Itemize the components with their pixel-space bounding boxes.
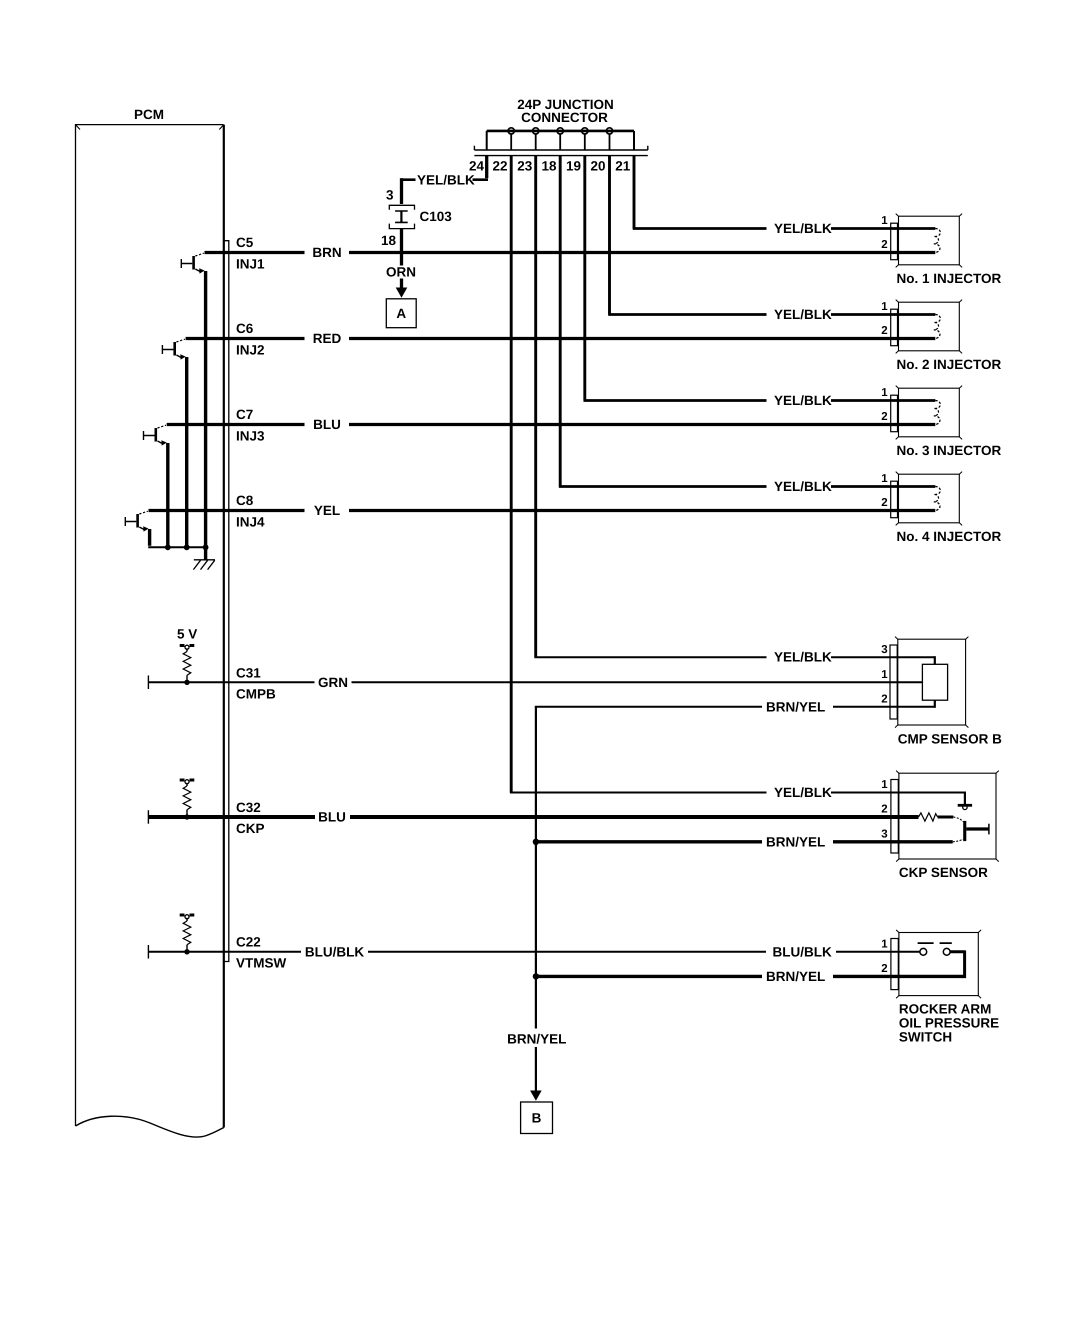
No.4 injector box (896, 472, 962, 526)
svg-text:INJ1: INJ1 (236, 257, 265, 272)
wire C103 ORN down (400, 229, 403, 289)
wire R1 to C31 (186, 675, 188, 681)
wire end tick C32 (147, 810, 149, 824)
wire column pin 20 (608, 156, 611, 315)
svg-text:2: 2 (881, 411, 887, 423)
svg-text:B: B (532, 1111, 542, 1126)
wire BRN/YEL from trunk to CMP sensor pin 2 (535, 706, 935, 708)
svg-text:SWITCH: SWITCH (899, 1029, 952, 1044)
junction dot emitter Q2 (184, 544, 190, 550)
svg-text:ORN: ORN (386, 264, 416, 279)
svg-text:1: 1 (881, 473, 888, 485)
wire YEL/BLK to CKP sensor pin 1 (510, 792, 965, 794)
PCM connector strip (225, 241, 229, 962)
wire C22 BLU/BLK to rocker arm switch pin 1 (149, 951, 920, 953)
svg-text:1: 1 (881, 387, 888, 399)
svg-text:VTMSW: VTMSW (236, 956, 287, 971)
svg-text:2: 2 (881, 497, 887, 509)
svg-text:19: 19 (566, 158, 581, 173)
wire Q2 emitter (185, 357, 188, 547)
svg-text:PCM: PCM (134, 107, 164, 122)
wire C6 RED to No.2 injector pin 2 (186, 337, 936, 340)
arrowhead to A (396, 288, 408, 298)
switch S1 contacts (918, 943, 952, 955)
svg-text:CONNECTOR: CONNECTOR (521, 110, 608, 125)
junction dot R1 C31 (184, 680, 189, 685)
junction dot R3 C22 (184, 949, 189, 954)
wire switch to pin 2 (950, 950, 965, 977)
wire Q1 emitter (204, 271, 207, 547)
svg-text:No. 2 INJECTOR: No. 2 INJECTOR (897, 357, 1002, 372)
No.1 injector connector bar (891, 223, 898, 260)
svg-text:18: 18 (381, 233, 397, 248)
resistor R4 (CKP internal) (919, 813, 938, 821)
svg-text:ROCKER ARM: ROCKER ARM (899, 1001, 992, 1016)
svg-text:BRN/YEL: BRN/YEL (766, 834, 825, 849)
No.3 injector box (896, 386, 962, 440)
wire CKP pin 1 drop (964, 792, 966, 806)
junction dot bus pin 22 (508, 128, 514, 134)
junction connector bus bar (487, 130, 634, 133)
wire Q3 emitter (166, 443, 169, 547)
wire YEL/BLK to No.2 injector pin 1 (608, 313, 935, 316)
junction dot bus pin 20 (606, 128, 612, 134)
svg-text:2: 2 (881, 963, 887, 975)
CMP sensor element (922, 664, 947, 700)
junction dot emitter Q1 (203, 544, 209, 550)
svg-text:No. 1 INJECTOR: No. 1 INJECTOR (897, 271, 1002, 286)
transistor Q3 INJ3 driver (144, 425, 167, 445)
svg-text:YEL: YEL (314, 503, 340, 518)
svg-text:YEL/BLK: YEL/BLK (774, 479, 832, 494)
svg-text:BLU/BLK: BLU/BLK (305, 944, 364, 959)
svg-text:YEL/BLK: YEL/BLK (774, 650, 832, 665)
wire column pin 19 (583, 156, 586, 401)
svg-text:RED: RED (313, 331, 342, 346)
wire ground bus (148, 546, 208, 548)
resistor R2 CKP pull-up (183, 786, 191, 810)
wire bus drop pin 19 (584, 134, 586, 150)
svg-text:1: 1 (881, 669, 888, 681)
wire bus stub pin 24 (486, 131, 488, 150)
svg-text:2: 2 (881, 325, 887, 337)
CKP sensor connector bar (891, 780, 898, 854)
CMP sensor connector bar (890, 645, 897, 719)
No.2 injector connector bar (891, 309, 898, 346)
wire BRN/YEL to CKP sensor pin 3 (535, 840, 953, 843)
label ROCKER ARM OIL PRESSURE SWITCH (899, 1001, 999, 1044)
wire end tick C31 (147, 676, 149, 690)
junction connector body strip (474, 146, 647, 156)
svg-text:CKP SENSOR: CKP SENSOR (899, 865, 988, 880)
wire bus drop pin 23 (535, 134, 537, 150)
CMP sensor box (895, 637, 968, 728)
wire C7 BLU to No.3 injector pin 2 (167, 423, 936, 426)
wire CMP pin 3 drop to element (934, 656, 936, 664)
svg-text:YEL/BLK: YEL/BLK (774, 221, 832, 236)
PCM box (76, 125, 224, 1138)
CKP sensor box (896, 771, 999, 862)
No.1 injector box (896, 214, 962, 268)
wire column pin 22 (510, 156, 513, 793)
wire CMP pin 2 rise to element (934, 700, 936, 708)
svg-text:2: 2 (881, 804, 887, 816)
connector C103 (389, 205, 414, 228)
wire C5 BRN to No.1 injector pin 2 (205, 251, 936, 254)
rocker arm switch box (896, 930, 981, 998)
junction dot R2 C32 (184, 814, 189, 819)
power rail symbol 5V (180, 645, 195, 651)
svg-text:1: 1 (881, 939, 888, 951)
wire R2 to C32 (186, 810, 188, 817)
svg-text:INJ4: INJ4 (236, 515, 265, 530)
svg-text:2: 2 (881, 239, 887, 251)
svg-text:23: 23 (517, 158, 533, 173)
svg-text:5 V: 5 V (177, 627, 197, 642)
wire R4 to transistor (938, 816, 954, 819)
wire bus drop pin 20 (609, 134, 611, 150)
svg-text:OIL PRESSURE: OIL PRESSURE (899, 1015, 999, 1030)
junction dot bus pin 18 (557, 128, 563, 134)
svg-text:BRN/YEL: BRN/YEL (766, 699, 825, 714)
svg-text:C22: C22 (236, 935, 261, 950)
svg-text:BLU: BLU (318, 810, 346, 825)
svg-text:1: 1 (881, 779, 888, 791)
svg-text:YEL/BLK: YEL/BLK (774, 393, 832, 408)
injector 3 coil (934, 400, 941, 424)
transistor Q2 INJ2 driver (162, 339, 185, 359)
junction dot bus pin 23 (533, 128, 539, 134)
svg-text:CKP: CKP (236, 821, 265, 836)
resistor R3 VTMSW pull-up (183, 921, 191, 945)
wire YEL/BLK to No.3 injector pin 1 (584, 399, 936, 402)
svg-text:YEL/BLK: YEL/BLK (774, 307, 832, 322)
wire column pin 18 (559, 156, 562, 487)
svg-text:YEL/BLK: YEL/BLK (417, 172, 475, 187)
svg-text:A: A (396, 306, 406, 321)
svg-text:C5: C5 (236, 235, 254, 250)
rocker arm switch connector bar (891, 939, 898, 990)
wire bus stub pin 21 (633, 131, 635, 150)
injector 2 coil (934, 314, 941, 338)
wire C32 BLU to CKP sensor pin 2 (149, 815, 919, 819)
svg-text:YEL/BLK: YEL/BLK (774, 785, 832, 800)
wire YEL/BLK to No.4 injector pin 1 (559, 485, 935, 488)
wire Q4 emitter to ground bus (148, 529, 151, 546)
svg-text:2: 2 (881, 694, 887, 706)
svg-text:BLU/BLK: BLU/BLK (773, 944, 832, 959)
arrowhead to B (530, 1091, 542, 1101)
No.3 injector connector bar (891, 395, 898, 432)
svg-text:C31: C31 (236, 666, 261, 681)
wire BRN/YEL trunk (535, 707, 537, 1092)
svg-text:BLU: BLU (313, 417, 341, 432)
transistor Q5 (CKP output) (953, 817, 989, 842)
CKP internal ground (958, 805, 972, 809)
svg-text:No. 4 INJECTOR: No. 4 INJECTOR (897, 529, 1002, 544)
wire column pin 21 (633, 156, 636, 229)
svg-text:22: 22 (492, 158, 507, 173)
injector 1 coil (934, 228, 941, 252)
injector 4 coil (934, 486, 941, 510)
transistor Q4 INJ4 driver (125, 511, 148, 531)
svg-text:BRN/YEL: BRN/YEL (507, 1032, 566, 1047)
junction dot bus pin 19 (582, 128, 588, 134)
wire C31 GRN to CMP sensor pin 1 (149, 681, 923, 683)
wire column pin 23 (534, 156, 537, 658)
svg-text:3: 3 (881, 829, 887, 841)
svg-text:INJ2: INJ2 (236, 343, 265, 358)
svg-text:3: 3 (386, 188, 394, 203)
junction dot trunk CKP (533, 839, 539, 845)
junction dot emitter Q3 (165, 544, 171, 550)
svg-text:CMPB: CMPB (236, 687, 276, 702)
svg-text:C7: C7 (236, 407, 253, 422)
wire end tick C22 (147, 945, 149, 959)
svg-text:BRN: BRN (312, 245, 341, 260)
svg-text:C103: C103 (420, 209, 453, 224)
power rail symbol CKP (180, 780, 195, 786)
svg-text:BRN/YEL: BRN/YEL (766, 969, 825, 984)
wire YEL/BLK to No.1 injector pin 1 (633, 227, 936, 230)
No.4 injector connector bar (891, 481, 898, 518)
svg-text:C6: C6 (236, 321, 254, 336)
svg-text:1: 1 (881, 215, 888, 227)
svg-text:INJ3: INJ3 (236, 429, 265, 444)
svg-text:No. 3 INJECTOR: No. 3 INJECTOR (897, 443, 1002, 458)
svg-text:20: 20 (590, 158, 605, 173)
svg-text:24: 24 (469, 158, 485, 173)
svg-text:C32: C32 (236, 800, 261, 815)
resistor R1 CMPB pull-up (183, 652, 191, 676)
svg-text:1: 1 (881, 301, 888, 313)
svg-text:GRN: GRN (318, 675, 348, 690)
svg-text:21: 21 (615, 158, 631, 173)
svg-text:3: 3 (881, 644, 887, 656)
wire bus drop pin 22 (510, 134, 512, 150)
wire bus drop pin 18 (559, 134, 561, 150)
node A box (386, 299, 416, 328)
junction dot trunk rocker (533, 973, 539, 979)
wire ground stub (204, 547, 207, 560)
svg-text:CMP SENSOR B: CMP SENSOR B (898, 731, 1002, 746)
transistor Q1 INJ1 driver (181, 253, 204, 273)
wire pin 24 YEL/BLK to C103 (402, 178, 489, 181)
power rail symbol VTMSW (180, 915, 195, 921)
wire R3 to C22 (186, 945, 188, 952)
svg-text:18: 18 (541, 158, 557, 173)
wire BRN/YEL to rocker arm switch pin 2 (535, 975, 966, 978)
No.2 injector box (896, 300, 962, 354)
svg-text:C8: C8 (236, 493, 254, 508)
ground (193, 560, 215, 570)
wire C8 YEL to No.4 injector pin 2 (149, 509, 936, 512)
wire YEL/BLK drop to C103 (400, 178, 403, 204)
wire YEL/BLK to CMP sensor pin 3 (534, 656, 934, 658)
wire pin 24 drop (485, 156, 488, 179)
node B box (521, 1102, 553, 1134)
